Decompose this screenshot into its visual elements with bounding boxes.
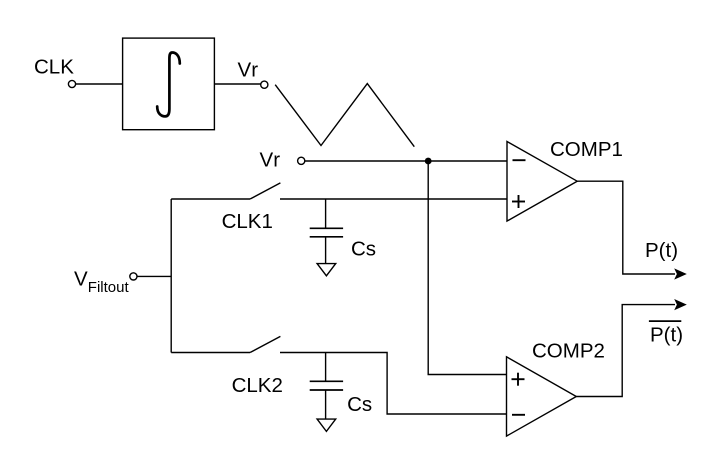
ground (top) [317,264,336,276]
terminal CLK [68,80,75,87]
wire Vr to COMP1 minus input [305,160,507,162]
arrowhead P(t) [674,268,687,279]
ground (bottom) [317,419,336,431]
COMP2 minus sign [512,414,525,416]
svg-text:COMP2: COMP2 [532,339,605,362]
svg-text:P(t): P(t) [650,323,683,346]
op-amp COMP1 [507,142,577,222]
capacitor Cs (top) stem lower [325,237,327,263]
overline for P(t) bar [649,320,681,322]
wire integrator output to Vr terminal [214,83,260,85]
capacitor Cs (bottom) stem lower [325,390,327,419]
integrator U1 integral symbol [157,53,180,117]
terminal V_Filtout [130,273,137,280]
wire V_Filtout branch vertical [170,199,172,353]
capacitor Cs (bottom) plates [310,380,343,382]
COMP1 minus sign [513,159,526,161]
wire CLK2 branch right segment [280,353,507,415]
wire V_Filtout to vertical branch [137,275,171,277]
wire CLK1 branch right segment to COMP1 plus input [280,198,507,200]
svg-text:V: V [74,267,88,290]
junction dot on Vr wire [425,158,432,165]
wire junction down to COMP2 plus input [428,161,506,375]
svg-text:Cs: Cs [351,237,376,260]
arrowhead P(t) bar [674,299,687,310]
svg-text:CLK1: CLK1 [222,210,273,233]
svg-text:COMP1: COMP1 [550,138,623,161]
svg-text:Cs: Cs [347,393,372,416]
svg-text:P(t): P(t) [645,239,678,262]
wire COMP1 output [577,181,675,274]
triangle waveform [275,84,414,147]
wire CLK2 branch left segment [171,352,250,354]
integrator U1 box [123,38,215,130]
wire COMP2 output [576,305,675,397]
terminal Vr top [261,81,268,88]
svg-text:Filtout: Filtout [88,279,130,296]
svg-text:Vr: Vr [260,148,281,171]
capacitor Cs (top) plates [310,227,343,229]
switch CLK2 arm [250,336,280,352]
svg-text:Vr: Vr [238,59,259,82]
capacitor Cs (top) stem upper [325,199,327,228]
svg-text:CLK2: CLK2 [232,374,283,397]
COMP2 plus sign [512,378,525,380]
COMP1 plus sign [512,201,525,203]
op-amp COMP2 [507,357,577,436]
capacitor Cs (bottom) stem upper [325,353,327,382]
switch CLK1 arm [250,183,280,199]
wire CLK1 branch left segment [171,198,250,200]
terminal Vr mid [298,157,305,164]
svg-text:CLK: CLK [34,55,74,78]
wire CLK to integrator [76,83,123,85]
